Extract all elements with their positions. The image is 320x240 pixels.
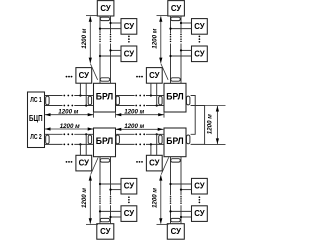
dim line LS1 span2 [116,114,164,116]
svg-text:1200 м: 1200 м [81,29,88,49]
bus dots line LS1 lower span2 [135,105,145,107]
svg-text:1200 м: 1200 м [152,188,159,208]
line terminator left of BRL-1 line LS1 [88,96,91,105]
wire bus-right upper seg col C [110,157,112,196]
bus dots line LS1 lower span1 [63,105,73,107]
wire SU drop near LS1 left [79,83,81,95]
dim arrow left LS2 span2 [116,128,122,131]
dim arrow right LS1 span2 [158,113,164,116]
wire bus-left lower seg col A [99,44,101,84]
dim arrow down col C [89,218,92,224]
junction SU-drop far line LS2 left [85,133,87,135]
dim arrow up col C [89,175,92,181]
junction SU-drop near line LS2 right [150,143,152,145]
line terminator left of BRL-2 line LS1 [159,96,162,105]
dim arrow down right [216,138,219,144]
dim leader slant col C [91,157,99,174]
device SU on line above LS1 right [146,68,162,84]
svg-text:СУ: СУ [79,159,90,168]
line terminator right of BRL-2 line LS1 [187,96,190,105]
svg-text:СУ: СУ [149,159,160,168]
device SU on line above LS1 left [76,68,92,84]
wire bus-left lower seg col C [99,205,101,224]
svg-text:БРЛ: БРЛ [166,92,183,102]
wire SU rise far LS2 left [85,134,87,155]
svg-text:СУ: СУ [149,71,160,80]
wire bus-right lower seg col D [180,205,182,224]
svg-text:1200 м: 1200 м [81,188,88,208]
wire line LS2 upper seg1 [45,133,63,135]
bus terminator oval top col B [171,17,181,20]
wire tap1 lower col A [100,28,121,30]
svg-text:БРЛ: БРЛ [166,136,183,146]
junction SU-drop near line LS1 left [79,94,81,96]
wire tap1 lower col B [171,28,192,30]
svg-text:БРЛ: БРЛ [96,136,113,146]
wire bus-left upper seg col B [170,16,172,34]
wire line LS2 lower seg2 [74,143,93,145]
bus dots line LS2 lower span2 [135,144,145,146]
svg-text:СУ: СУ [124,182,135,191]
device SU tap1 col A [121,19,137,35]
wire bus-right lower seg col A [110,44,112,84]
line terminator left of BRL-2 line LS2 [159,135,162,144]
dim extension bottom col C [86,223,98,225]
device SU terminal top col B [168,1,185,16]
bus continuation dots right line col A [110,34,112,42]
bus terminator oval bottom col C [100,218,110,221]
bus dots line LS2 upper span2 [135,133,145,135]
bus terminator oval below BRL col C [100,159,110,162]
wire bus-right upper seg col A [110,16,112,34]
device SU tap2 col B [192,46,208,62]
svg-text:1200 м: 1200 м [124,109,144,116]
dim leader slant col A [90,64,97,80]
wire line LS2 upper seg4 [146,133,164,135]
bus terminator oval top col A [100,17,110,20]
svg-text:СУ: СУ [124,209,135,218]
device SU on line below LS2 left [76,155,92,171]
bus continuation dots left line col A [99,34,101,42]
svg-text:БЦП: БЦП [29,114,43,123]
dim arrow up col B [159,16,162,22]
wire tap1 upper col B [181,22,192,24]
radial line block BRL top-right [164,83,186,112]
junction tap1 upper col B [180,22,182,24]
dim extension BRL top-left left corner [93,113,95,118]
ellipsis between taps col C [128,196,130,203]
wire SU drop far LS1 left [85,83,87,105]
wire bus-right upper seg col D [180,157,182,196]
radial line block BRL top-left [94,83,116,112]
wire tap2 upper col D [171,210,192,212]
svg-text:1200 м: 1200 м [152,29,159,49]
dim arrow right LS2 span2 [158,128,164,131]
ellipsis left of SU LS1 left [66,76,73,78]
junction tap1 lower col C [109,189,111,191]
bus continuation dots right line col D [180,196,182,204]
line terminator right of BRL-2 line LS2 [187,135,190,144]
svg-text:СУ: СУ [171,227,182,236]
dim arrow up col D [159,175,162,181]
wire bus-right lower seg col B [180,44,182,84]
dim extension BRL top-right left corner [163,113,165,118]
radial line block BRL bottom-right [164,128,186,157]
device SU tap2 col C [121,206,137,222]
dim leader slant col D [161,157,169,174]
wire line LS2 upper seg3 [116,133,135,135]
junction tap2 upper col D [169,210,171,212]
dim line right vertical [216,106,218,144]
wire tap2 lower col D [181,216,192,218]
device SU on line below LS2 right [146,155,162,171]
svg-text:СУ: СУ [124,22,135,31]
wire line LS1 lower seg2 [74,105,93,107]
svg-text:СУ: СУ [194,209,205,218]
line terminator right of BRL-1 line LS2 [116,135,119,144]
wire loop inner (LS1 bottom to LS2 bottom) [191,106,205,145]
device SU terminal top col A [97,1,114,16]
wire line LS1 upper seg3 [116,95,135,97]
dim arrow left LS1 span1 [45,113,51,116]
bus terminator oval above BRL col A [100,78,110,81]
wire bus-left upper seg col C [99,157,101,196]
device SU terminal bottom col C [97,224,114,240]
svg-text:СУ: СУ [79,71,90,80]
wire SU rise near LS2 right [150,144,152,155]
wire line LS2 lower seg3 [116,143,135,145]
bus continuation dots right line col C [110,196,112,204]
wire bus-right upper seg col B [180,16,182,34]
dim arrow up right [216,106,219,112]
dim line vertical col C [89,175,91,223]
wire line LS1 lower seg4 [146,105,164,107]
bus dots line LS1 upper span2 [135,95,145,97]
wire line LS2 lower seg1 [45,143,63,145]
wire tap2 lower col B [171,55,192,57]
svg-text:1200 м: 1200 м [207,114,214,134]
dim extension top col A [86,15,98,17]
dim arrow right LS1 span1 [88,113,94,116]
bus terminator oval above BRL col B [171,78,181,81]
device SU tap2 col D [192,206,208,222]
dim arrow up col A [89,16,92,22]
junction tap2 lower col B [169,55,171,57]
bus continuation dots left line col C [99,196,101,204]
junction tap1 upper col D [169,183,171,185]
bus continuation dots left line col D [170,196,172,204]
junction tap2 lower col C [109,216,111,218]
dim extension BRL top-left right corner [115,113,117,118]
line terminator right of BRL-1 line LS1 [116,96,119,105]
ellipsis left of SU LS2 left [66,161,73,163]
wire loop outer (LS1 top to LS2 top) [191,96,196,135]
svg-text:СУ: СУ [194,22,205,31]
wire line LS2 upper seg2 [74,133,93,135]
dim line LS2 span1 [45,128,93,130]
junction tap1 lower col B [169,28,171,30]
ellipsis left of SU LS1 right [136,76,143,78]
dim extension top col B [157,15,169,17]
junction tap1 lower col D [180,189,182,191]
svg-text:СУ: СУ [171,4,182,13]
wire bus-left upper seg col A [99,16,101,34]
wire tap1 upper col A [111,22,122,24]
wire tap1 upper col C [100,183,121,185]
wire line LS1 upper seg2 [74,95,93,97]
ellipsis between taps col B [199,36,201,43]
svg-text:БРЛ: БРЛ [96,92,113,102]
svg-text:СУ: СУ [194,49,205,58]
wire line LS1 upper seg4 [146,95,164,97]
wire line LS1 upper seg1 [45,95,63,97]
wire tap2 upper col C [100,210,121,212]
line terminator at BCP line LS2 [46,135,49,144]
wire tap2 upper col B [181,49,192,51]
device SU tap1 col B [192,19,208,35]
device SU terminal bottom col D [167,224,184,240]
ellipsis between taps col D [199,196,201,203]
dim line vertical col B [160,16,162,62]
dim leader slant col B [161,64,168,80]
dim extension bottom col D [157,223,169,225]
dim arrow down col B [159,58,162,64]
device SU tap1 col C [121,178,137,194]
bus dots line LS2 upper span1 [63,133,73,135]
svg-text:1200 м: 1200 м [58,109,78,116]
device SU tap2 col A [121,46,137,62]
junction SU-drop far line LS1 left [85,104,87,106]
dim extension right lower [205,143,226,145]
wire SU rise near LS2 left [79,144,81,155]
wire tap1 lower col D [181,189,192,191]
svg-text:1200 м: 1200 м [60,123,80,130]
wire tap2 lower col A [100,55,121,57]
wire line LS1 lower seg3 [116,105,135,107]
junction SU-drop far line LS2 right [156,133,158,135]
bus dots line LS1 upper span1 [63,95,73,97]
wire tap2 upper col A [111,49,122,51]
dim line LS1 span1 [45,114,93,116]
dim arrow down col A [89,58,92,64]
svg-text:СУ: СУ [100,227,111,236]
junction tap2 upper col B [180,49,182,51]
junction tap1 upper col C [99,183,101,185]
wire tap1 lower col C [111,189,122,191]
line terminator left of BRL-1 line LS2 [88,135,91,144]
dim line vertical col D [160,175,162,223]
junction SU-drop far line LS1 right [156,104,158,106]
central unit BCP [28,92,45,148]
ellipsis between taps col A [128,36,130,43]
wire bus-left upper seg col D [170,157,172,196]
svg-text:СУ: СУ [124,49,135,58]
bus continuation dots left line col B [170,34,172,42]
svg-text:ЛС 1: ЛС 1 [30,97,42,104]
wire bus-left lower seg col B [170,44,172,84]
device SU tap1 col D [192,178,208,194]
dim arrow left LS2 span1 [45,127,51,130]
dim arrow left LS1 span2 [116,113,122,116]
wire line LS1 lower seg1 [45,105,63,107]
wire bus-left lower seg col D [170,205,172,224]
dim extension right upper [205,105,226,107]
line terminator at BCP line LS1 [46,96,49,105]
bus continuation dots right line col B [180,34,182,42]
radial line block BRL bottom-left [94,128,116,157]
junction tap1 upper col A [109,22,111,24]
svg-text:СУ: СУ [194,182,205,191]
svg-text:СУ: СУ [100,4,111,13]
bus terminator oval bottom col D [171,218,181,221]
wire line LS2 lower seg4 [146,143,164,145]
junction SU-drop near line LS2 left [79,143,81,145]
svg-text:1200 м: 1200 м [124,123,144,130]
svg-text:ЛС 2: ЛС 2 [30,134,42,141]
wire SU rise far LS2 right [156,134,158,155]
wire SU drop far LS1 right [156,83,158,105]
wire bus-right lower seg col C [110,205,112,224]
dim line vertical col A [89,16,91,62]
dim line LS2 span2 [116,128,164,130]
bus terminator oval below BRL col D [171,159,181,162]
junction tap1 lower col A [99,28,101,30]
wire tap1 upper col D [171,183,192,185]
bus dots line LS2 lower span1 [63,144,73,146]
wire SU drop near LS1 right [150,83,152,95]
junction SU-drop near line LS1 right [150,94,152,96]
junction tap2 lower col A [99,55,101,57]
ellipsis left of SU LS2 right [136,161,143,163]
wire tap2 lower col C [111,216,122,218]
junction tap2 upper col A [109,49,111,51]
dim arrow right LS2 span1 [88,127,94,130]
dim arrow down col D [159,218,162,224]
junction tap2 upper col C [99,210,101,212]
junction tap2 lower col D [180,216,182,218]
